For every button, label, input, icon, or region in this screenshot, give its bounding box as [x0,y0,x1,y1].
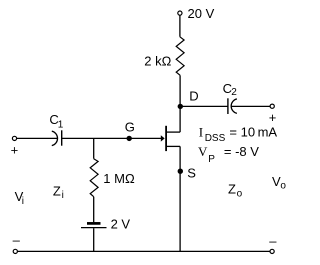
svg-text:20 V: 20 V [188,6,215,21]
resistor R1 2 kOhm [176,37,184,76]
svg-text:I: I [199,124,203,139]
wire: C2 to output terminal [231,105,270,107]
capacitor C1 straight plate [61,130,63,145]
ground rail (bottom wire) [18,250,271,252]
wire: input terminal to C1 curved plate [17,137,58,139]
node S dot [178,169,183,174]
capacitor C2 straight plate [227,98,229,114]
svg-text:2 V: 2 V [111,217,131,232]
wire: battery bottom to ground rail [93,228,95,251]
battery 2V negative plate (short thick, top) [87,222,101,225]
battery 2V positive plate (long thin, bottom) [81,227,107,229]
capacitor C2 curved plate [231,99,237,114]
terminal: bottom-left [13,249,17,253]
node D junction dot [178,104,183,109]
gate arrowhead of JFET [161,135,165,141]
svg-text:2 kΩ: 2 kΩ [144,53,171,68]
terminal: bottom-right [270,249,274,253]
svg-text:Z: Z [228,182,236,197]
resistor R2 1 MOhm [90,159,98,197]
svg-text:2: 2 [231,87,237,98]
wire: source down to ground rail [179,146,181,251]
svg-text:+: + [269,110,277,125]
svg-text:S: S [187,165,196,180]
svg-text:Z: Z [53,184,61,199]
capacitor C1 curved plate [52,131,58,146]
terminal: input Vi [12,136,16,140]
svg-text:D: D [189,89,198,104]
svg-text:mA: mA [258,124,278,139]
wire: node D to C2 left plate [180,105,228,107]
terminal: output Vo [270,104,274,108]
transistor Q1 source lead [166,145,180,147]
svg-text:o: o [237,188,243,199]
svg-text:i: i [62,190,64,201]
terminal: +20V supply [178,11,182,15]
svg-text:i: i [22,196,24,207]
wire: R2 bottom to battery top plate [93,197,95,223]
svg-text:1: 1 [58,119,64,130]
svg-text:G: G [125,119,135,134]
svg-text:–: – [269,234,277,249]
svg-text:= 10: = 10 [229,124,255,139]
wire: junction down to R2 top [93,138,95,158]
svg-text:+: + [11,142,19,157]
svg-text:V: V [198,144,208,159]
svg-text:1 MΩ: 1 MΩ [103,171,135,186]
wire: C1 to gate arrow [62,137,162,139]
transistor Q1 drain lead [166,131,180,133]
svg-text:–: – [13,233,21,248]
svg-text:o: o [280,181,286,192]
transistor Q1 JFET channel bar [165,126,167,151]
node G junction dot [127,136,132,141]
svg-text:P: P [208,154,215,165]
svg-text:= -8 V: = -8 V [224,144,259,159]
wire: supply terminal to R1 top [179,15,181,36]
svg-text:DSS: DSS [205,133,226,144]
wire: R1 bottom through node D to drain [179,75,181,132]
